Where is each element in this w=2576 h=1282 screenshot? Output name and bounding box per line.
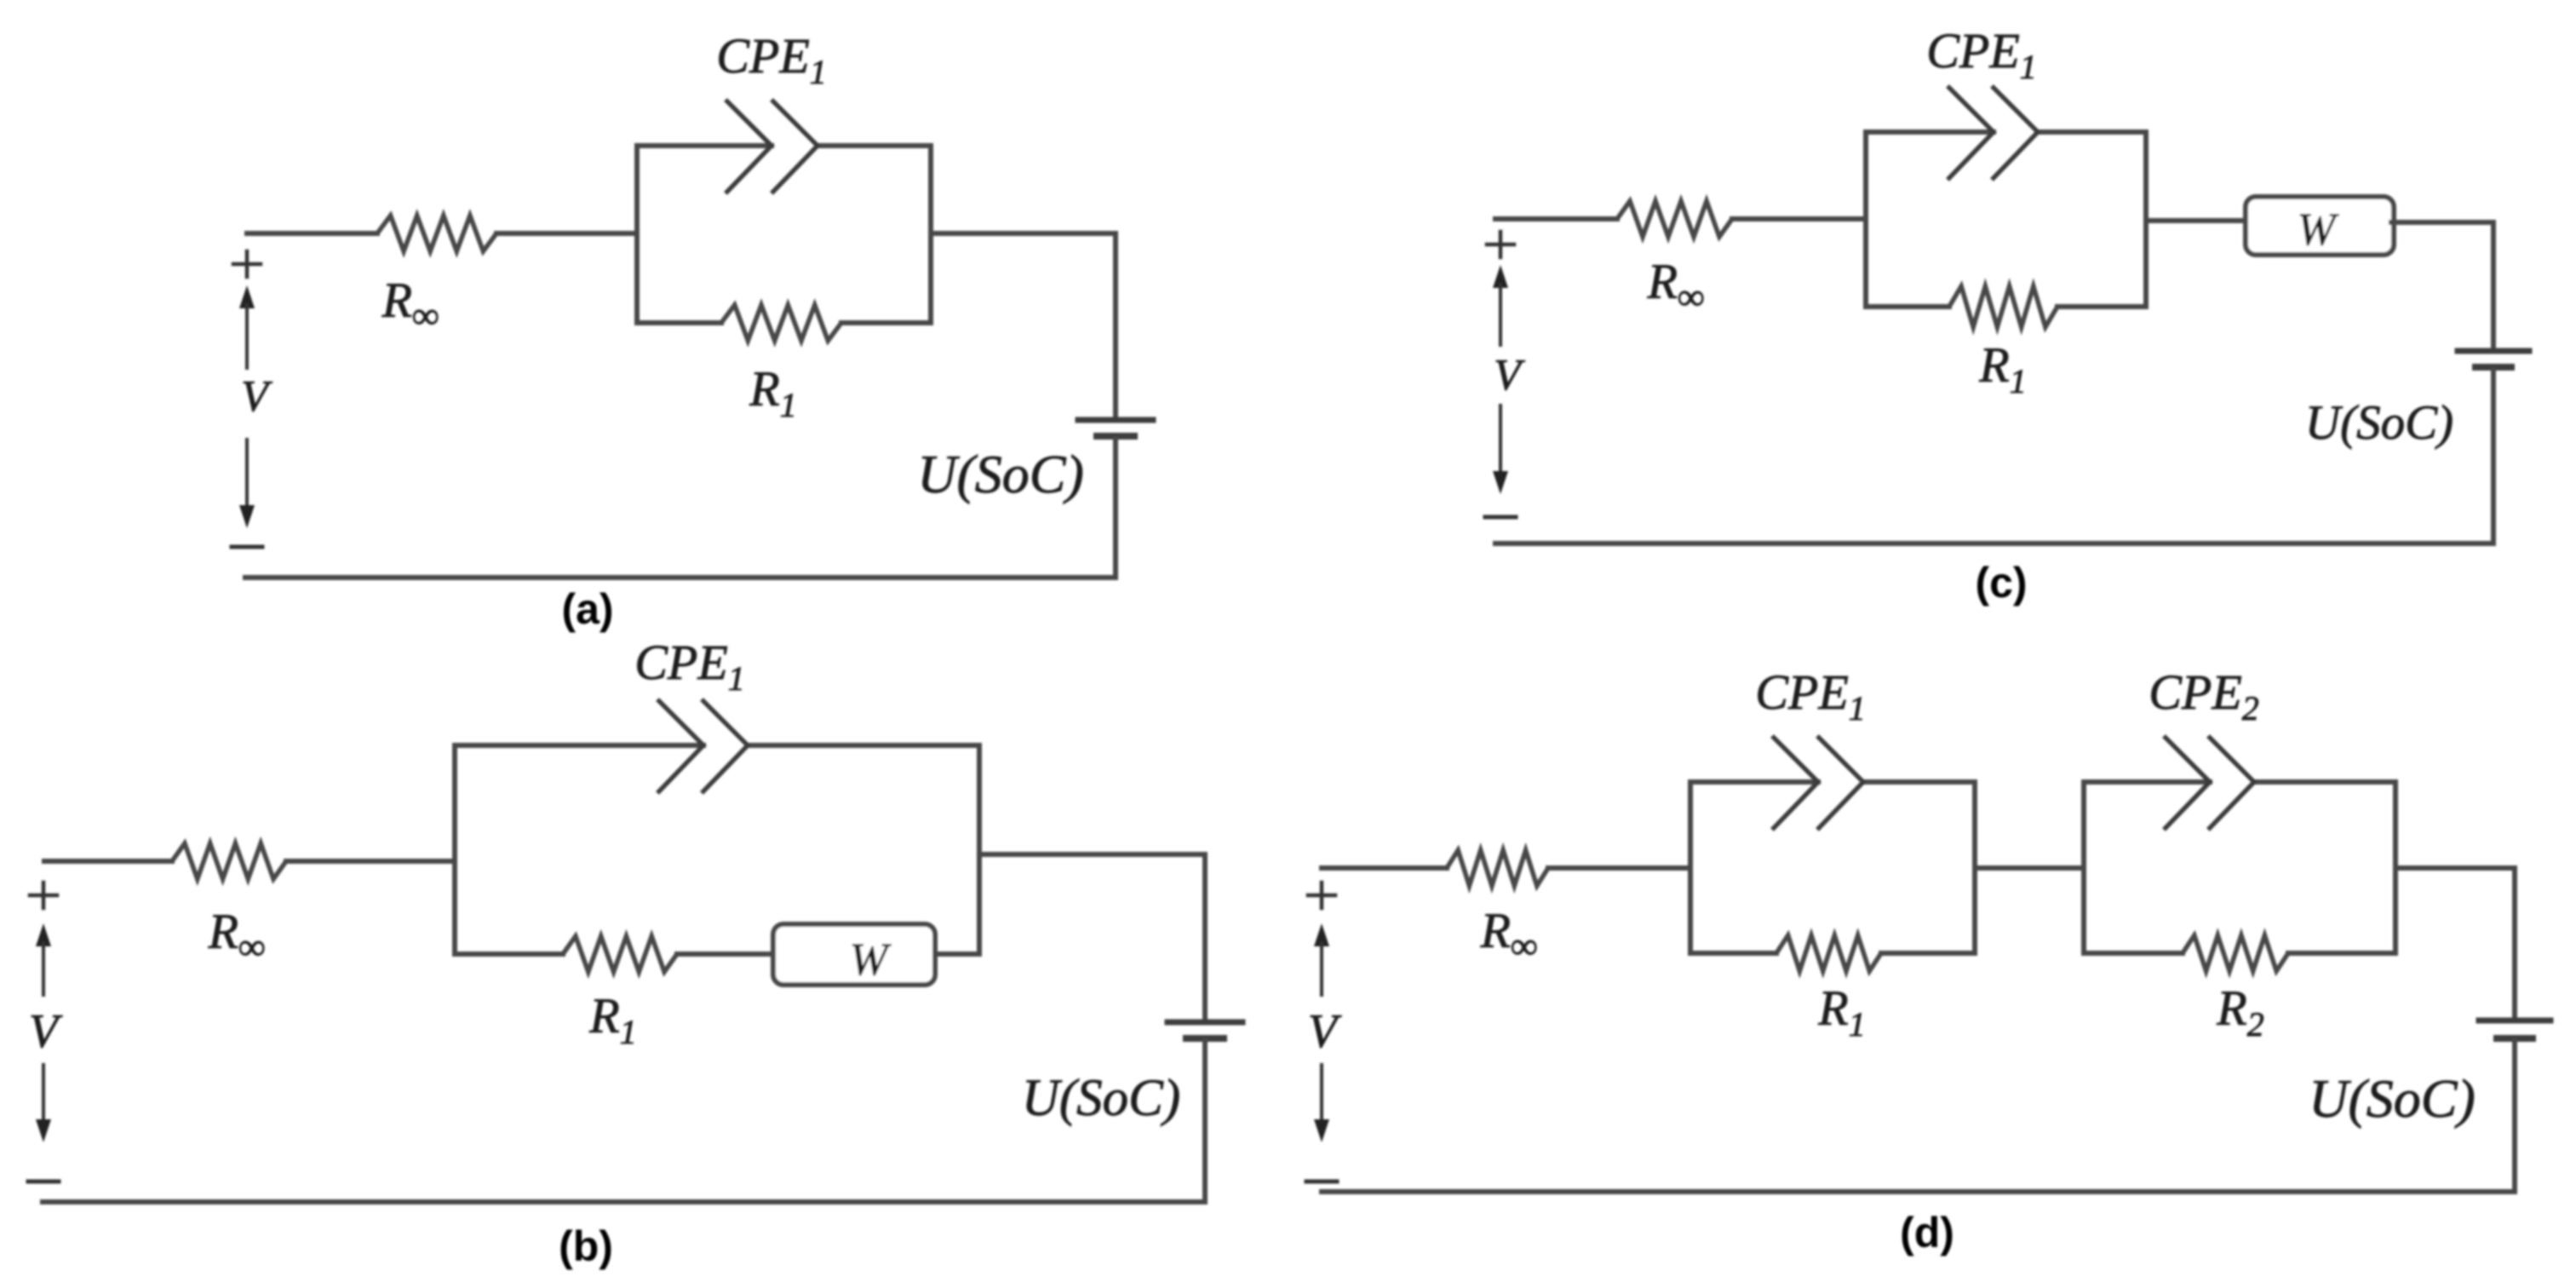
circuit (b): wire block to battery (979, 854, 1205, 1020)
circuit (b): node label V (29, 1005, 63, 1058)
circuit (c): V down arrow (1493, 405, 1508, 494)
circuit (b): label R1 (588, 988, 636, 1051)
circuit (a): wire battery to bottom rail (1113, 439, 1118, 578)
circuit (d): label CPE1 (1755, 664, 1866, 727)
circuit (d): label R-inf (1480, 903, 1538, 967)
circuit (a): V up arrow (239, 285, 255, 368)
circuit (c): plus terminal label (1487, 232, 1514, 257)
svg-text:(c): (c) (1975, 559, 2027, 607)
circuit (c): battery U(SoC) (2458, 351, 2529, 367)
circuit (a): node label V (241, 372, 273, 421)
circuit (d): battery U(SoC) (2479, 1020, 2550, 1038)
circuit (a): resistor R1 (721, 305, 841, 341)
circuit (d): V down arrow (1314, 1065, 1329, 1142)
circuit (b): label R-inf (208, 904, 266, 968)
circuit (a): plus terminal label (233, 251, 261, 277)
circuit (c): wire Warburg to battery (2391, 222, 2493, 348)
circuit (a): label R-inf (382, 273, 439, 336)
circuit (a): V down arrow (239, 440, 255, 528)
circuit (a): CPE1 element (726, 100, 818, 193)
circuit (a): parallel block frame (637, 146, 931, 323)
circuit (d): wire from + terminal to resistor R-inf (1322, 865, 1447, 871)
circuit (c): minus terminal label (1485, 515, 1516, 520)
circuit (a): resistor R-inf (377, 216, 496, 251)
circuit (d): node label V (1308, 1005, 1342, 1058)
circuit (c): wire block to Warburg element (2146, 218, 2248, 223)
circuit (b): parallel block frame (455, 745, 979, 954)
circuit (d): plus terminal label (1308, 882, 1335, 908)
circuit (a): wire resistor to parallel block (496, 231, 637, 236)
circuit (b): V up arrow (36, 923, 51, 995)
circuit (c): Warburg element W box (2246, 197, 2394, 255)
circuit (c): node label V (1494, 351, 1525, 400)
circuit (d): label CPE2 (2149, 664, 2259, 727)
circuit (b): plus terminal label (30, 882, 57, 908)
circuit (c): resistor R1 (1949, 286, 2057, 327)
circuit (c): label U(SoC) (2305, 396, 2453, 450)
circuit (a): wire from + terminal to resistor R-inf (247, 231, 377, 236)
svg-text:(b): (b) (559, 1222, 613, 1270)
svg-text:V: V (241, 372, 273, 421)
circuit (b): CPE1 element (657, 699, 748, 793)
circuit (b): wire from + terminal to resistor R-inf (44, 859, 172, 864)
circuit (a): sub-figure label (a) (561, 585, 613, 633)
circuit (d): sub-figure label (d) (1900, 1209, 1954, 1256)
circuit (b): minus terminal label (28, 1180, 59, 1184)
circuit (d): bottom return wire (1322, 1189, 2515, 1194)
svg-text:W: W (850, 934, 892, 985)
circuit (a): label R1 (749, 361, 796, 424)
circuit (d): label R1 (1817, 980, 1865, 1043)
circuit (a): battery U(SoC) (1078, 420, 1153, 436)
circuit (d): label R2 (2216, 980, 2263, 1043)
circuit (a): label CPE1 (716, 28, 827, 91)
svg-text:U(SoC): U(SoC) (2305, 396, 2453, 450)
circuit (c): label W (2298, 204, 2340, 255)
circuit (d): CPE2 element (2164, 736, 2254, 830)
circuit (c): CPE1 element (1948, 86, 2038, 180)
svg-text:(d): (d) (1900, 1209, 1954, 1256)
circuit (c): parallel block frame (1866, 132, 2146, 307)
circuit (d): wire resistor to first block (1548, 865, 1690, 871)
circuit (b): bottom return wire (43, 1199, 1205, 1204)
circuit (b): sub-figure label (b) (559, 1222, 613, 1270)
circuit (d): V up arrow (1314, 923, 1329, 995)
circuit (b): resistor R-inf (172, 843, 286, 879)
circuit (c): wire from + terminal to resistor R-inf (1495, 216, 1617, 221)
circuit (d): resistor R-inf (1447, 850, 1548, 886)
svg-text:V: V (1308, 1005, 1342, 1058)
svg-text:W: W (2298, 204, 2340, 255)
svg-text:(a): (a) (561, 585, 613, 633)
circuit (c): wire battery to bottom rail (2491, 370, 2496, 543)
circuit (c): resistor R-inf (1617, 201, 1732, 237)
circuit (b): wire resistor to parallel block (286, 859, 455, 864)
circuit (c): wire resistor to parallel block (1732, 216, 1866, 221)
circuit (b): label CPE1 (634, 635, 745, 698)
circuit (a): bottom return wire (245, 575, 1116, 580)
circuit (a): minus terminal label (232, 545, 262, 549)
circuit (c): V up arrow (1493, 265, 1508, 345)
circuit (d): wire battery to bottom rail (2512, 1041, 2517, 1192)
circuit (d): label U(SoC) (2309, 1068, 2476, 1129)
circuit (d): resistor R2 (2183, 935, 2288, 971)
circuit (c): label R1 (1978, 337, 2026, 400)
circuit (b): battery U(SoC) (1168, 1022, 1242, 1038)
circuit (b): Warburg element W box (773, 924, 935, 985)
svg-text:U(SoC): U(SoC) (917, 444, 1084, 504)
circuit (d): CPE1 element (1772, 736, 1863, 830)
circuit (b): label U(SoC) (1022, 1070, 1180, 1127)
circuit (b): wire battery to bottom rail (1202, 1041, 1208, 1202)
circuit (c): label R-inf (1647, 254, 1705, 318)
circuit (d): wire second block to battery (2395, 868, 2515, 1018)
svg-text:V: V (29, 1005, 63, 1058)
circuit (c): bottom return wire (1495, 541, 2493, 546)
circuit (d): first parallel block frame (1690, 782, 1975, 953)
circuit (d): minus terminal label (1306, 1180, 1337, 1184)
svg-text:V: V (1494, 351, 1525, 400)
svg-text:U(SoC): U(SoC) (2309, 1068, 2476, 1129)
circuit (a): wire block to battery (931, 233, 1116, 417)
circuit (d): wire between blocks (1975, 865, 2084, 871)
svg-text:U(SoC): U(SoC) (1022, 1070, 1180, 1127)
circuit (d): resistor R1 (1776, 935, 1881, 971)
circuit (b): label W (850, 934, 892, 985)
circuit (b): V down arrow (36, 1065, 51, 1142)
circuit (b): resistor R1 (563, 936, 677, 972)
circuit (a): label U(SoC) (917, 444, 1084, 504)
circuit (c): sub-figure label (c) (1975, 559, 2027, 607)
circuit (c): label CPE1 (1926, 23, 2037, 86)
circuit (d): second parallel block frame (2084, 782, 2395, 953)
